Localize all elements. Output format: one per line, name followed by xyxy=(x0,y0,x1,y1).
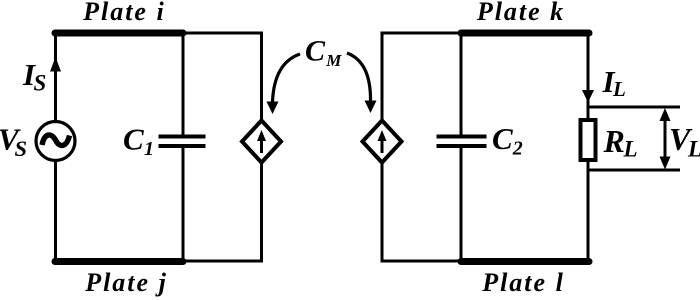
svg-text:C: C xyxy=(492,121,513,156)
svg-text:Plate j: Plate j xyxy=(84,268,168,297)
svg-text:M: M xyxy=(325,51,342,70)
svg-text:L: L xyxy=(612,77,626,101)
svg-text:Plate k: Plate k xyxy=(476,0,565,26)
svg-text:Plate l: Plate l xyxy=(481,268,565,297)
svg-text:S: S xyxy=(34,70,47,95)
svg-text:1: 1 xyxy=(144,138,154,160)
svg-text:S: S xyxy=(15,136,28,161)
svg-text:R: R xyxy=(603,123,625,159)
svg-text:L: L xyxy=(687,137,700,162)
svg-text:Plate i: Plate i xyxy=(82,0,166,26)
svg-text:C: C xyxy=(305,35,326,68)
svg-text:L: L xyxy=(623,137,638,162)
svg-text:2: 2 xyxy=(512,138,523,160)
svg-text:C: C xyxy=(123,122,144,157)
